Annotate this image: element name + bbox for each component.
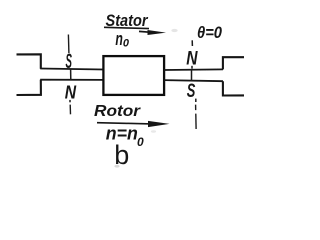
- Rotor underline: [97, 123, 152, 124]
- svg-text:θ=0: θ=0: [197, 24, 223, 42]
- rotor block: [103, 56, 164, 95]
- right pole centerline dot below S: [195, 99, 197, 102]
- faint scan smudge right of Stator arrow: [171, 29, 177, 32]
- right pole centerline tick through shaft: [191, 70, 193, 81]
- svg-text:S: S: [66, 50, 73, 73]
- Stator speed arrow: [139, 30, 151, 33]
- svg-text:Rotor: Rotor: [94, 103, 141, 120]
- shaft right section top line: [164, 68, 223, 71]
- svg-text:S: S: [187, 79, 196, 101]
- svg-text:n: n: [115, 28, 123, 49]
- left pole centerline dash bottom: [69, 105, 71, 115]
- shaft right section bottom line: [164, 80, 223, 81]
- svg-text:0: 0: [137, 135, 144, 149]
- svg-text:0: 0: [123, 38, 130, 50]
- right stator pole piece lower bracket: [223, 81, 244, 95]
- right stator pole piece upper bracket: [223, 57, 244, 69]
- faint scan smudge left of rotor arrow tip: [151, 130, 156, 132]
- faint scan smudge below-left of b: [114, 165, 119, 168]
- left pole centerline dash top: [67, 35, 70, 54]
- svg-text:b: b: [114, 140, 129, 168]
- left stator pole piece lower bracket: [17, 80, 41, 95]
- shaft left section bottom line: [40, 79, 103, 81]
- left pole centerline tick through shaft: [70, 69, 72, 80]
- svg-text:N: N: [65, 81, 77, 103]
- shaft left section top line: [40, 69, 103, 70]
- left stator pole piece upper bracket: [17, 54, 41, 69]
- right pole centerline dash above N: [191, 40, 193, 46]
- right pole centerline dash bottom: [195, 114, 197, 129]
- right pole centerline dash: [195, 105, 197, 111]
- Stator underline: [104, 27, 149, 28]
- svg-text:N: N: [186, 47, 198, 69]
- left pole centerline dot: [69, 100, 71, 102]
- right pole centerline dash below N: [191, 66, 193, 69]
- Rotor speed arrow: [148, 121, 170, 127]
